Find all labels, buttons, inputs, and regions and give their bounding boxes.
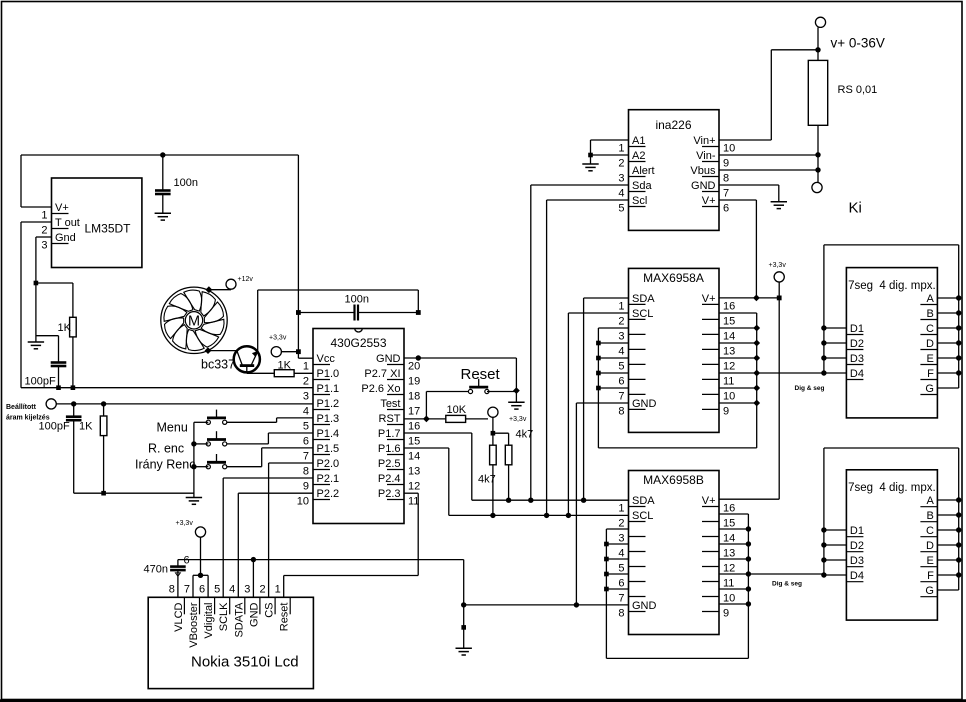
svg-text:Beállított: Beállított <box>6 404 37 411</box>
junction RST node <box>423 416 430 423</box>
svg-text:P2.0: P2.0 <box>317 458 340 470</box>
capacitor C4 100n (MCU) <box>298 294 418 321</box>
wire LM35 Gnd down <box>36 237 52 342</box>
svg-text:Vdigital: Vdigital <box>203 603 215 639</box>
junction display1 D4 <box>821 370 826 375</box>
junction SCL/MAX6958A <box>566 513 571 518</box>
svg-text:A: A <box>927 293 935 305</box>
svg-text:5: 5 <box>618 203 624 215</box>
svg-text:5: 5 <box>618 360 624 372</box>
svg-text:Sda: Sda <box>632 180 652 192</box>
ground (ina226) <box>771 201 787 203</box>
svg-text:7: 7 <box>184 583 190 595</box>
wire MAX6958B left bus pins 3-7 <box>606 529 748 658</box>
svg-text:9: 9 <box>303 481 309 493</box>
junction C2 / P1.1 net <box>56 385 61 390</box>
svg-text:B: B <box>927 308 934 320</box>
wire LM35 T out to P1.1 net <box>21 222 313 388</box>
wire LCD ground line <box>178 560 464 649</box>
svg-text:430G2553: 430G2553 <box>330 336 386 350</box>
svg-text:1K: 1K <box>58 322 72 334</box>
junction ground bus corner <box>461 602 466 607</box>
capacitor C3 100pF <box>39 404 104 493</box>
wire SW1 to P1.3 <box>227 418 313 422</box>
wire MAX6958A SDA down <box>584 298 629 500</box>
resistor R6 4k7 (SCL pullup) <box>478 445 496 515</box>
svg-text:14: 14 <box>723 533 735 545</box>
wire ina226 Sda down <box>531 185 629 500</box>
svg-text:F: F <box>927 368 934 380</box>
resistor R4 1K (base) <box>247 360 313 377</box>
wire SW3 to P1.5 <box>227 448 313 467</box>
svg-text:3: 3 <box>244 583 250 595</box>
display DS2 7seg 4 dig. mpx. <box>846 470 937 620</box>
wire ina226 V+ to 3,3v rail <box>719 200 756 298</box>
wire SCL net (P1.6) <box>404 448 629 515</box>
junction B bus pin7 <box>604 587 609 592</box>
svg-text:8: 8 <box>618 405 624 417</box>
svg-text:D1: D1 <box>850 525 864 537</box>
svg-text:2: 2 <box>618 315 624 327</box>
svg-text:1K: 1K <box>278 360 292 372</box>
svg-text:SDA: SDA <box>632 495 655 507</box>
svg-text:7: 7 <box>618 593 624 605</box>
ground (ina226 address) <box>582 163 598 165</box>
svg-text:B: B <box>927 510 934 522</box>
svg-text:Test: Test <box>380 398 400 410</box>
svg-text:V+: V+ <box>55 202 69 214</box>
svg-text:Vin-: Vin- <box>696 150 716 162</box>
svg-text:P1.3: P1.3 <box>317 413 340 425</box>
svg-text:10: 10 <box>723 143 735 155</box>
wire +3,3v to Vcc <box>281 155 313 358</box>
svg-text:+3,3v: +3,3v <box>269 335 287 342</box>
svg-text:7seg 4 dig. mpx.: 7seg 4 dig. mpx. <box>848 482 936 494</box>
svg-text:6: 6 <box>199 583 205 595</box>
junction GND/C4 wire <box>416 355 421 360</box>
svg-text:11: 11 <box>723 578 734 590</box>
junction display1 seg B <box>956 310 961 315</box>
wire P2.0 to Nokia CS <box>269 463 313 597</box>
svg-text:16: 16 <box>723 300 735 312</box>
wire +3,3v to 4k7 pullups <box>493 417 509 445</box>
svg-text:4: 4 <box>229 583 235 595</box>
wire fan- to Q1 <box>208 350 237 352</box>
junction Vbus / shunt <box>815 167 820 172</box>
svg-text:D4: D4 <box>850 368 864 380</box>
svg-text:12: 12 <box>723 563 735 575</box>
svg-text:+3,3v: +3,3v <box>176 520 194 527</box>
wire ina226 Scl down <box>547 200 629 515</box>
svg-text:8: 8 <box>169 583 175 595</box>
svg-text:P2.7 XI: P2.7 XI <box>364 368 400 380</box>
junction B right bus pin14 <box>746 526 751 531</box>
svg-text:D3: D3 <box>850 555 864 567</box>
svg-text:D4: D4 <box>850 570 864 582</box>
svg-text:P2.6 Xo: P2.6 Xo <box>361 383 400 395</box>
svg-text:Dig & seg: Dig & seg <box>795 385 825 392</box>
wire RC bottom to button bus <box>104 492 194 494</box>
ground (main) <box>456 647 472 649</box>
svg-text:SCL: SCL <box>632 510 653 522</box>
microcontroller U1 430G2553 <box>297 329 421 524</box>
junction B right bus pin10 <box>746 586 751 591</box>
wire button common bus <box>194 422 208 497</box>
terminal current-set input <box>6 399 56 422</box>
svg-text:1: 1 <box>275 583 281 595</box>
svg-text:P2.1: P2.1 <box>317 473 340 485</box>
wire ina226 A1/A2 to ground <box>591 140 629 164</box>
junction B right bus pin9 <box>746 601 751 606</box>
svg-text:2: 2 <box>259 583 265 595</box>
junction B bus pin5 <box>604 557 609 562</box>
svg-text:D1: D1 <box>850 323 864 335</box>
junction v+ node <box>815 47 820 52</box>
wire reset button right to ground node <box>487 391 516 393</box>
junction A right bus pin14 <box>753 325 760 332</box>
terminal +3,3v (rail) <box>769 262 787 298</box>
junction A1/A2 <box>588 153 593 158</box>
ground (LM35 Gnd) <box>28 341 44 343</box>
junction SCL/R6 <box>490 513 495 518</box>
wire MAX6958B right bus pins 9-15 <box>719 514 748 658</box>
svg-text:Irány Renc: Irány Renc <box>135 458 195 472</box>
svg-text:2: 2 <box>618 158 624 170</box>
junction R3 tap <box>101 401 106 406</box>
svg-text:+3,3v: +3,3v <box>509 416 527 423</box>
junction A right bus pin9 <box>753 400 760 407</box>
svg-text:10K: 10K <box>447 404 467 416</box>
svg-text:15: 15 <box>723 315 735 327</box>
junction display1 seg F <box>956 370 961 375</box>
svg-text:5: 5 <box>618 563 624 575</box>
junction pullup split <box>491 431 496 436</box>
push button SW4 Reset <box>461 366 501 394</box>
svg-text:100pF: 100pF <box>25 376 56 388</box>
junction 100n tap <box>296 310 301 315</box>
svg-text:P1.0: P1.0 <box>317 368 340 380</box>
resistor R2 1K (LM35) <box>36 283 76 388</box>
junction display2 seg A <box>956 497 961 502</box>
resistor R3 1K <box>79 404 107 493</box>
transistor Q1 bc337 <box>201 346 260 373</box>
wire reset button left to RST <box>426 392 468 419</box>
svg-text:7: 7 <box>723 188 729 200</box>
svg-text:Vbus: Vbus <box>690 165 716 177</box>
wire Dig & seg A to display 1 <box>719 373 825 392</box>
wire Nokia GND pin drop <box>252 560 254 598</box>
svg-text:Reset: Reset <box>279 603 291 632</box>
svg-text:V+: V+ <box>702 495 716 507</box>
wire MSP GND to ground <box>404 358 516 402</box>
svg-text:D: D <box>926 540 934 552</box>
junction display1 seg E <box>956 355 961 360</box>
svg-text:F: F <box>927 570 934 582</box>
svg-text:4k7: 4k7 <box>478 474 496 486</box>
junction LM35 Gnd node <box>34 281 39 286</box>
svg-text:7: 7 <box>618 390 624 402</box>
junction display1 D2 <box>821 340 826 345</box>
svg-text:Dig & seg: Dig & seg <box>772 581 802 588</box>
junction display1 D1 <box>821 325 826 330</box>
wire display1 segment loop <box>824 245 959 388</box>
svg-text:D3: D3 <box>850 353 864 365</box>
junction A right bus pin13 <box>753 340 760 347</box>
svg-text:Alert: Alert <box>632 165 655 177</box>
svg-text:Scl: Scl <box>632 195 647 207</box>
svg-text:1: 1 <box>618 503 624 515</box>
svg-text:19: 19 <box>408 376 420 388</box>
svg-text:P1.6: P1.6 <box>378 443 401 455</box>
svg-text:1K: 1K <box>79 421 93 433</box>
terminal Ki output <box>812 182 862 216</box>
svg-text:7seg 4 dig. mpx.: 7seg 4 dig. mpx. <box>848 280 936 292</box>
junction display2 seg B <box>956 512 961 517</box>
junction display2 seg E <box>956 557 961 562</box>
junction A right bus pin12 <box>753 355 760 362</box>
wire P2.1 to Nokia SCLK <box>223 478 313 597</box>
svg-text:4: 4 <box>618 548 624 560</box>
svg-text:CS: CS <box>264 603 276 618</box>
svg-text:18: 18 <box>408 391 420 403</box>
svg-text:E: E <box>927 353 934 365</box>
junction MAX6958A GND / bus <box>574 602 579 607</box>
svg-text:6: 6 <box>618 578 624 590</box>
junction A bus pin7 <box>596 386 601 391</box>
junction stub (ground bus) <box>461 625 466 630</box>
svg-text:8: 8 <box>723 173 729 185</box>
ground (C1) <box>155 212 171 214</box>
junction A bus pin6 <box>596 371 601 376</box>
svg-text:D2: D2 <box>850 540 864 552</box>
junction C4 / collector node <box>416 310 421 315</box>
junction A bus pin4 <box>596 341 601 346</box>
svg-text:VBooster: VBooster <box>188 602 200 648</box>
svg-text:P1.1: P1.1 <box>317 383 340 395</box>
junction rail / ina226 V+ <box>753 295 760 302</box>
display driver U5 MAX6958B <box>618 471 735 635</box>
svg-text:6: 6 <box>303 436 309 448</box>
svg-text:470n: 470n <box>144 564 168 576</box>
svg-text:12: 12 <box>408 481 420 493</box>
wire P2.2 to Nokia SDATA <box>238 493 313 597</box>
wire ground bus to MAX6958B GND <box>464 604 629 606</box>
svg-text:GND: GND <box>632 398 657 410</box>
shunt resistor RS 0,01 <box>808 60 877 182</box>
svg-text:100n: 100n <box>345 294 369 306</box>
wire MAX6958A GND down <box>576 403 628 605</box>
junction SW3 bus <box>191 464 196 469</box>
svg-text:A1: A1 <box>632 135 645 147</box>
motor M1 fan <box>161 287 227 353</box>
svg-text:1: 1 <box>618 143 624 155</box>
svg-text:1: 1 <box>41 210 47 222</box>
junction B right bus pin11 <box>746 571 751 576</box>
junction B right bus pin12 <box>746 556 751 561</box>
push button SW2 R. enc <box>148 431 227 455</box>
svg-text:8: 8 <box>303 466 309 478</box>
svg-text:V+: V+ <box>702 293 716 305</box>
terminal +3,3v (MCU Vcc) <box>269 335 287 357</box>
svg-text:RS 0,01: RS 0,01 <box>838 84 878 96</box>
svg-text:1: 1 <box>618 300 624 312</box>
terminal +3,3v (RST pullup) <box>488 407 527 423</box>
svg-text:100pF: 100pF <box>39 421 70 433</box>
svg-text:3: 3 <box>618 330 624 342</box>
junction Vcc node <box>296 349 301 354</box>
capacitor C2 100pF (LM35 filter) <box>25 336 67 388</box>
wire P2.3 to Nokia Reset <box>284 493 419 597</box>
svg-text:2: 2 <box>41 225 47 237</box>
wire display2 digit bus <box>824 448 847 575</box>
wire ina226 GND to ground <box>719 185 779 202</box>
svg-text:M: M <box>188 314 200 330</box>
svg-text:P2.4: P2.4 <box>378 473 401 485</box>
display driver U4 MAX6958A <box>618 268 735 432</box>
wire Q1 collector to GND/C4 node <box>258 290 419 351</box>
svg-text:C: C <box>926 525 934 537</box>
wire MAX6958A right bus pins 9-15 <box>719 313 757 448</box>
svg-text:13: 13 <box>723 345 735 357</box>
push button SW3 Irany Renc <box>135 454 227 472</box>
wire Dig & seg B to display 2 <box>719 574 824 588</box>
svg-text:+12v: +12v <box>238 276 254 283</box>
svg-text:13: 13 <box>408 466 420 478</box>
svg-text:Nokia 3510i Lcd: Nokia 3510i Lcd <box>191 654 299 671</box>
junction SW2 bus <box>191 441 196 446</box>
svg-text:3: 3 <box>41 240 47 252</box>
svg-text:C: C <box>926 323 934 335</box>
junction display2 D2 <box>821 542 826 547</box>
svg-text:6: 6 <box>618 375 624 387</box>
svg-text:11: 11 <box>723 375 734 387</box>
svg-text:Vin+: Vin+ <box>693 135 715 147</box>
svg-text:A: A <box>927 495 935 507</box>
svg-text:14: 14 <box>408 451 420 463</box>
junction A right bus pin10 <box>753 385 760 392</box>
resistor R7 4k7 (SDA pullup) <box>505 429 533 501</box>
svg-text:15: 15 <box>723 518 735 530</box>
ground (reset node) <box>508 401 524 403</box>
svg-text:MAX6958B: MAX6958B <box>643 473 704 487</box>
svg-text:Gnd: Gnd <box>55 232 76 244</box>
wire LM35 V+ to +3.3V rail (top) <box>21 155 298 207</box>
svg-text:R. enc: R. enc <box>148 442 184 456</box>
junction SDA/R7 <box>506 498 511 503</box>
svg-text:G: G <box>925 383 934 395</box>
junction SDA/ina226 <box>528 498 533 503</box>
svg-text:P1.5: P1.5 <box>317 443 340 455</box>
junction A right bus pin11 <box>753 370 760 377</box>
junction A bus pin5 <box>596 356 601 361</box>
svg-text:Ki: Ki <box>849 200 862 217</box>
svg-text:16: 16 <box>723 503 735 515</box>
svg-text:SCLK: SCLK <box>218 602 230 631</box>
svg-text:Vcc: Vcc <box>317 353 336 365</box>
junction display1 D3 <box>821 355 826 360</box>
svg-text:6: 6 <box>723 203 729 215</box>
resistor R5 10K (RST pullup) <box>404 404 488 422</box>
svg-text:RST: RST <box>379 413 401 425</box>
svg-text:10: 10 <box>297 496 309 508</box>
junction display1 seg A <box>956 295 961 300</box>
svg-text:5: 5 <box>214 583 220 595</box>
svg-text:8: 8 <box>618 608 624 620</box>
ground (button bus) <box>186 497 202 499</box>
junction display1 seg C <box>956 325 961 330</box>
svg-text:4: 4 <box>303 406 309 418</box>
svg-text:2: 2 <box>303 376 309 388</box>
junction SCL/ina226 <box>544 513 549 518</box>
wire ina226 Vin+ to shunt top <box>719 50 818 140</box>
terminal +12v <box>226 276 253 289</box>
svg-text:G: G <box>925 585 934 597</box>
svg-text:ina226: ina226 <box>655 118 691 132</box>
junction LCD supply <box>198 573 203 578</box>
svg-text:7: 7 <box>303 451 309 463</box>
svg-text:17: 17 <box>408 406 420 418</box>
junction display2 seg C <box>956 527 961 532</box>
junction display2 D1 <box>821 527 826 532</box>
junction display2 seg F <box>956 572 961 577</box>
svg-text:bc337: bc337 <box>201 358 235 372</box>
junction display2 seg D <box>956 542 961 547</box>
wire Nokia VBooster/Vdigital supply <box>193 575 208 597</box>
junction Vin- / shunt <box>815 152 820 157</box>
svg-text:MAX6958A: MAX6958A <box>643 271 704 285</box>
junction R2 / P1.1 net <box>71 385 76 390</box>
svg-text:P1.7: P1.7 <box>378 428 401 440</box>
junction display2 D4 <box>821 572 826 577</box>
svg-text:2: 2 <box>618 518 624 530</box>
junction C3/R3 bottom <box>101 491 106 496</box>
junction display2 D3 <box>821 557 826 562</box>
junction SDA/MAX6958A <box>581 498 586 503</box>
svg-text:3: 3 <box>618 533 624 545</box>
svg-text:SDA: SDA <box>632 293 655 305</box>
LCD module DS3 Nokia 3510i Lcd <box>148 583 313 688</box>
junction B bus pin4 <box>604 542 609 547</box>
wire rail down to MAX6958B V+ <box>719 298 779 499</box>
svg-text:20: 20 <box>408 361 420 373</box>
junction B right bus pin13 <box>746 541 751 546</box>
wire display2 segment loop <box>824 448 959 590</box>
wire ina226 Vin- <box>719 154 818 156</box>
display DS1 7seg 4 dig. mpx. <box>846 268 937 418</box>
svg-text:10: 10 <box>723 593 735 605</box>
svg-text:5: 5 <box>303 421 309 433</box>
capacitor C1 100n (top) <box>155 155 198 213</box>
svg-text:3: 3 <box>303 391 309 403</box>
svg-text:6: 6 <box>184 555 190 567</box>
svg-text:12: 12 <box>723 360 735 372</box>
svg-text:GND: GND <box>376 353 401 365</box>
terminal v+ supply <box>815 17 885 60</box>
temperature sensor U2 LM35DT <box>41 178 142 268</box>
svg-text:V+: V+ <box>702 195 716 207</box>
svg-text:GND: GND <box>248 602 260 627</box>
svg-text:A2: A2 <box>632 150 645 162</box>
svg-text:SCL: SCL <box>632 308 653 320</box>
svg-text:P1.4: P1.4 <box>317 428 340 440</box>
junction reset ground node <box>513 387 520 394</box>
svg-text:GND: GND <box>632 600 657 612</box>
svg-text:+3,3v: +3,3v <box>769 262 787 269</box>
svg-text:9: 9 <box>723 608 729 620</box>
wire current-set to P1.2 <box>56 403 313 405</box>
svg-text:9: 9 <box>723 158 729 170</box>
svg-text:D2: D2 <box>850 338 864 350</box>
